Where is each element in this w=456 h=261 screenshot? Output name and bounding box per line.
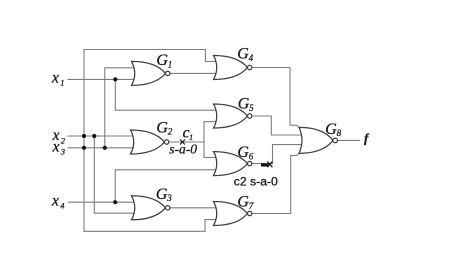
wire G6 output node c2 to G8 input 3 (252, 145, 303, 164)
node dot x2 rail B (92, 134, 96, 138)
wire input x2 (68, 135, 135, 137)
wire c1 to G6 upper input (204, 157, 218, 159)
svg-text:G: G (237, 194, 249, 211)
svg-text:2: 2 (61, 135, 66, 145)
svg-text:3: 3 (60, 146, 65, 156)
node dot x3 rail A (82, 146, 86, 150)
wire x4 branch up to G6 lower input (115, 170, 217, 202)
svg-text:3: 3 (166, 193, 172, 203)
svg-text:1: 1 (168, 59, 173, 69)
svg-text:G: G (156, 52, 168, 69)
svg-text:G: G (237, 45, 249, 62)
svg-text:G: G (156, 119, 168, 136)
svg-text:x: x (52, 138, 60, 155)
wire input x4 (69, 201, 136, 203)
svg-text:5: 5 (249, 103, 254, 113)
wire rail B x2 branch down to G3 lower input (94, 136, 135, 213)
svg-text:1: 1 (189, 132, 193, 142)
NOR gate G6 body (214, 152, 248, 176)
NOR gate G5 body (214, 104, 248, 128)
svg-text:6: 6 (249, 151, 254, 161)
wire bottom rail into G7 lower input (84, 220, 218, 232)
wire G3 output to G7 upper input (170, 207, 218, 209)
NOR gate G1 body (132, 61, 166, 85)
svg-text:G: G (156, 186, 168, 203)
wire input x1 (68, 78, 136, 80)
wire G2 output node c1 (169, 141, 204, 143)
fault scribble on c2 wire (261, 162, 272, 168)
wire c1 split vertical (203, 122, 205, 158)
NOR gate G4 body (214, 56, 248, 80)
svg-text:1: 1 (60, 78, 64, 88)
NOR gate G2 body (131, 130, 165, 154)
wire G7 output to G8 input 4 (252, 153, 300, 213)
wire c1 to G5 lower input (204, 121, 218, 123)
svg-text:x: x (51, 192, 59, 209)
wire G4 output to G8 input 1 (252, 68, 300, 128)
svg-text:x: x (51, 70, 59, 87)
wire G8 output f (338, 139, 360, 141)
fault mark x on c1 wire (180, 140, 185, 145)
wire x1 branch down to G5 upper input (115, 79, 217, 110)
svg-text:G: G (325, 121, 337, 138)
node dot x1 branch (113, 77, 117, 81)
node dot x3 rail C (103, 146, 107, 150)
NOR gate G8 body (299, 127, 333, 153)
wire input x3 (68, 147, 135, 149)
wire G5 output to G8 input 2 (252, 116, 303, 135)
svg-text:s-a-0: s-a-0 (169, 141, 197, 156)
wire rail C x3 branch up to G1 upper input (105, 68, 136, 148)
svg-text:G: G (238, 96, 250, 113)
svg-text:8: 8 (337, 128, 342, 138)
NOR gate G7 body (214, 202, 248, 226)
node dot x2 rail A (82, 134, 86, 138)
svg-text:4: 4 (60, 200, 65, 210)
NOR gate G3 body (132, 196, 166, 220)
svg-text:2: 2 (168, 127, 173, 137)
node dot x4 branch (113, 200, 117, 204)
svg-text:c2 s-a-0: c2 s-a-0 (234, 174, 278, 188)
wire rail A left vertical with top rail into G4 upper input (84, 50, 218, 232)
wire G1 output to G4 lower input (170, 72, 218, 74)
svg-text:7: 7 (249, 201, 254, 211)
svg-text:4: 4 (249, 53, 254, 63)
svg-text:G: G (237, 144, 249, 161)
